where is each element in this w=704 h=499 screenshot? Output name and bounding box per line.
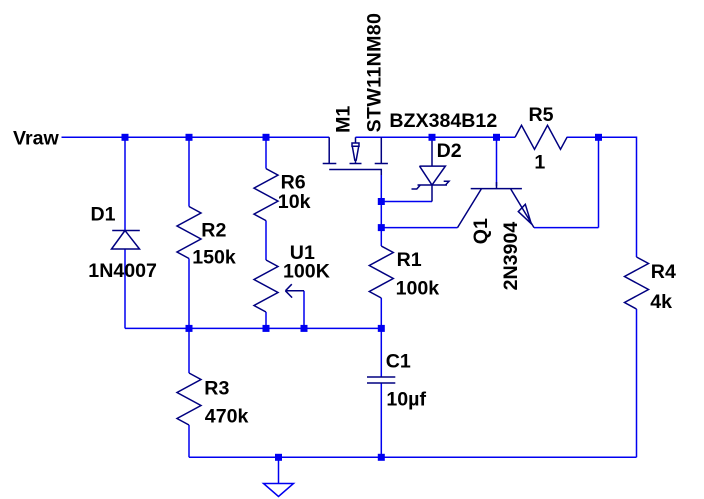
wire C1 top lead — [380, 328, 382, 377]
wire Vraw to M1 drain — [62, 136, 330, 138]
svg-text:Vraw: Vraw — [13, 128, 60, 150]
nmos M1 — [323, 137, 388, 175]
wire R6 to U1 — [265, 221, 267, 260]
capacitor C1 — [367, 377, 395, 383]
wire R3 top lead — [188, 328, 190, 373]
wire U1 bottom lead — [265, 312, 267, 328]
svg-text:STW11NM80: STW11NM80 — [364, 13, 386, 133]
resistor R6 — [254, 169, 278, 221]
resistor R3 — [177, 373, 201, 425]
potentiometer U1 — [254, 260, 278, 312]
wire R3 bottom lead — [188, 425, 190, 457]
junction bottom-ground — [275, 454, 282, 461]
svg-text:10k: 10k — [278, 191, 311, 213]
svg-text:150k: 150k — [192, 247, 236, 269]
svg-text:10µf: 10µf — [386, 389, 426, 411]
wire D1 bottom to mid rail — [124, 249, 126, 328]
wire Q1 emitter to right node — [534, 227, 599, 229]
wire R5 left lead — [497, 136, 516, 138]
npn transistor Q1 — [458, 182, 535, 228]
wire M1 source to D2 node — [356, 136, 433, 138]
wire U1 wiper to mid rail — [303, 291, 305, 329]
junction R5 right node — [595, 134, 602, 141]
wire D2 node to Q1 base node — [432, 136, 497, 138]
ground — [264, 484, 294, 497]
wire R4 bottom lead — [636, 309, 638, 457]
svg-text:M1: M1 — [333, 106, 355, 133]
wire M1 gate to R1 — [380, 175, 382, 246]
wire R2 bottom lead — [188, 259, 190, 329]
junction D2 top — [429, 134, 436, 141]
diode D1 — [112, 231, 140, 250]
wire R5 right to node — [567, 136, 599, 138]
svg-text:R3: R3 — [204, 377, 229, 399]
svg-text:R5: R5 — [529, 104, 554, 126]
svg-text:R4: R4 — [651, 261, 676, 283]
svg-text:100K: 100K — [283, 261, 330, 283]
svg-text:R2: R2 — [201, 220, 226, 242]
svg-text:D2: D2 — [437, 140, 462, 162]
resistor R2 — [177, 207, 201, 259]
junction bottom-C1 — [378, 454, 385, 461]
potentiometer U1 wiper arrow — [285, 284, 304, 297]
resistor R4 — [625, 257, 649, 309]
junction gate-D2 — [378, 198, 385, 205]
wire gate node to Q1 collector — [381, 227, 457, 229]
svg-text:BZX384B12: BZX384B12 — [389, 110, 497, 132]
svg-text:4k: 4k — [650, 291, 672, 313]
wire right node vertical — [598, 137, 600, 227]
wire node to R4 top — [599, 137, 637, 257]
junction Q1 base node — [493, 134, 500, 141]
junction mid-U1 — [263, 325, 270, 332]
wire Q1 base lead — [496, 137, 498, 186]
svg-text:2N3904: 2N3904 — [500, 222, 522, 291]
wire R1 bottom lead — [380, 298, 382, 328]
wire R6 top lead — [265, 137, 267, 168]
wire D1 top lead — [124, 137, 126, 230]
wire D2 anode to gate node — [381, 201, 432, 203]
junction Vraw-R2 — [186, 134, 193, 141]
junction Vraw-D1 — [122, 134, 129, 141]
wire bottom rail — [189, 456, 637, 458]
junction Vraw-R6 — [263, 134, 270, 141]
svg-text:D1: D1 — [91, 204, 116, 226]
zener diode D2 — [412, 141, 450, 202]
junction mid-wiper — [301, 325, 308, 332]
svg-text:100k: 100k — [396, 277, 440, 299]
wire R2 top lead — [188, 137, 190, 206]
svg-text:470k: 470k — [205, 406, 249, 428]
svg-text:R1: R1 — [397, 249, 422, 271]
svg-text:Q1: Q1 — [470, 218, 492, 244]
wire C1 bottom lead — [380, 383, 382, 457]
svg-text:C1: C1 — [386, 350, 411, 372]
junction mid-R2R3 — [186, 325, 193, 332]
resistor R1 — [369, 246, 393, 298]
wire ground stub — [278, 457, 280, 483]
svg-text:1: 1 — [534, 151, 545, 173]
svg-text:1N4007: 1N4007 — [88, 260, 157, 282]
resistor R5 — [515, 125, 567, 149]
junction mid-R1C1 — [378, 325, 385, 332]
wire mid rail — [125, 327, 381, 329]
junction gate-collector — [378, 224, 385, 231]
